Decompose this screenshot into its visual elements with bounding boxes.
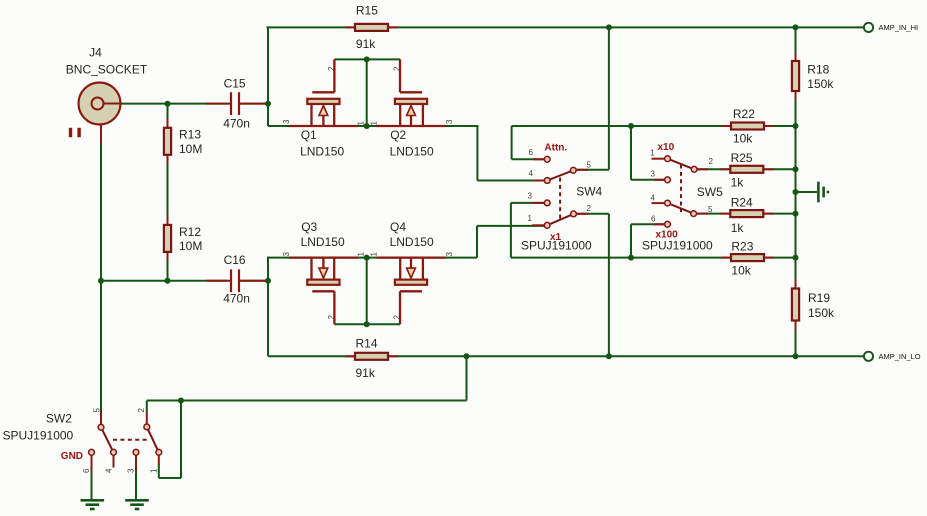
svg-text:5: 5 <box>93 408 102 413</box>
svg-text:SW4: SW4 <box>576 185 602 199</box>
svg-text:LND150: LND150 <box>300 144 344 158</box>
svg-text:SW5: SW5 <box>697 185 723 199</box>
svg-text:R19: R19 <box>808 291 830 305</box>
svg-text:Q1: Q1 <box>301 128 317 142</box>
svg-text:2: 2 <box>587 204 592 213</box>
svg-text:3: 3 <box>445 252 454 257</box>
svg-text:2: 2 <box>392 315 401 320</box>
svg-text:1: 1 <box>150 468 159 473</box>
svg-text:2: 2 <box>327 66 336 71</box>
svg-text:LND150: LND150 <box>390 144 434 158</box>
svg-text:GND: GND <box>61 451 83 462</box>
svg-text:Q4: Q4 <box>390 220 406 234</box>
svg-text:1k: 1k <box>731 176 745 190</box>
svg-text:x1: x1 <box>550 232 562 243</box>
svg-text:1k: 1k <box>731 221 745 235</box>
svg-text:3: 3 <box>651 170 656 179</box>
svg-text:4: 4 <box>105 468 114 473</box>
svg-text:R25: R25 <box>731 151 753 165</box>
svg-text:AMP_IN_HI: AMP_IN_HI <box>879 23 919 32</box>
svg-text:1: 1 <box>650 149 655 158</box>
svg-text:R24: R24 <box>731 195 753 209</box>
svg-text:6: 6 <box>82 468 91 473</box>
svg-text:10M: 10M <box>179 142 202 156</box>
svg-text:150k: 150k <box>808 306 835 320</box>
svg-text:1: 1 <box>357 121 366 126</box>
svg-text:3: 3 <box>282 119 291 124</box>
svg-text:3: 3 <box>127 468 136 473</box>
svg-text:10k: 10k <box>733 131 753 145</box>
svg-text:2: 2 <box>392 66 401 71</box>
svg-text:1: 1 <box>357 252 366 257</box>
svg-text:6: 6 <box>529 148 534 157</box>
svg-text:4: 4 <box>529 169 534 178</box>
svg-text:2: 2 <box>327 315 336 320</box>
svg-text:4: 4 <box>651 193 656 202</box>
svg-text:2: 2 <box>137 408 146 413</box>
svg-text:R13: R13 <box>179 128 201 142</box>
svg-text:LND150: LND150 <box>390 235 434 249</box>
svg-text:5: 5 <box>587 160 592 169</box>
svg-text:C15: C15 <box>224 77 246 91</box>
svg-text:SPUJ191000: SPUJ191000 <box>642 239 713 253</box>
svg-text:3: 3 <box>528 192 533 201</box>
svg-text:3: 3 <box>282 252 291 257</box>
svg-text:1: 1 <box>370 121 379 126</box>
svg-text:R12: R12 <box>179 225 201 239</box>
svg-text:AMP_IN_LO: AMP_IN_LO <box>879 352 921 361</box>
svg-text:R23: R23 <box>731 240 753 254</box>
svg-text:x100: x100 <box>656 229 679 240</box>
svg-text:91k: 91k <box>356 37 376 51</box>
svg-text:91k: 91k <box>356 366 376 380</box>
svg-text:Q3: Q3 <box>301 220 317 234</box>
svg-text:LND150: LND150 <box>301 235 345 249</box>
svg-text:R14: R14 <box>356 337 378 351</box>
svg-text:10k: 10k <box>731 264 751 278</box>
svg-text:R15: R15 <box>356 4 378 18</box>
svg-text:C16: C16 <box>224 253 246 267</box>
svg-text:BNC_SOCKET: BNC_SOCKET <box>66 63 148 77</box>
svg-text:x10: x10 <box>658 142 675 153</box>
svg-text:J4: J4 <box>89 46 102 60</box>
svg-text:470n: 470n <box>223 117 250 131</box>
svg-text:5: 5 <box>708 205 713 214</box>
svg-text:470n: 470n <box>223 292 250 306</box>
svg-text:3: 3 <box>445 119 454 124</box>
svg-text:R22: R22 <box>733 107 755 121</box>
svg-text:1: 1 <box>528 214 533 223</box>
svg-text:6: 6 <box>651 215 656 224</box>
svg-text:SPUJ191000: SPUJ191000 <box>3 429 74 443</box>
svg-text:2: 2 <box>709 157 714 166</box>
svg-text:R18: R18 <box>807 63 829 77</box>
svg-text:Attn.: Attn. <box>544 142 567 153</box>
svg-text:SW2: SW2 <box>46 411 72 425</box>
svg-text:10M: 10M <box>179 239 202 253</box>
svg-text:Q2: Q2 <box>390 128 406 142</box>
svg-text:150k: 150k <box>807 77 834 91</box>
svg-text:1: 1 <box>370 252 379 257</box>
